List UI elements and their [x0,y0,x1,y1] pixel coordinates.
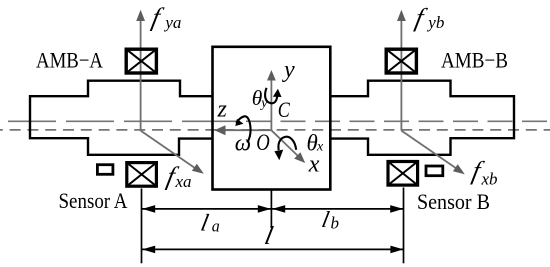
shaft right outline [330,81,514,155]
dimension extension line right [403,188,405,264]
center extension tick [270,190,272,229]
svg-text:f: f [149,3,166,32]
label f_yb [413,3,430,32]
arrowhead f_xb [453,164,465,174]
svg-text:a: a [212,217,220,236]
x arrowhead [294,152,305,163]
label f_ya [149,3,166,32]
arrowhead f_xa [192,164,204,174]
svg-text:C: C [278,97,290,122]
svg-text:y: y [282,57,295,83]
svg-text:AMB−A: AMB−A [36,48,103,73]
dimension line l [142,248,403,250]
z arrowhead [214,125,225,135]
force axis vertical B [400,20,402,131]
svg-text:Sensor A: Sensor A [59,188,128,213]
x-axis [271,130,298,156]
y arrowhead [267,70,276,81]
AMB-B crossed box [386,49,416,73]
svg-text:l: l [262,221,275,250]
y-axis [270,80,272,131]
svg-text:l: l [199,210,212,237]
Sensor B crossed box [388,162,418,186]
svg-text:O: O [256,130,270,155]
svg-text:y: y [259,96,268,111]
svg-text:ω: ω [235,130,251,155]
svg-text:AMB−B: AMB−B [441,48,508,73]
label l_a [199,210,212,237]
force diagonal f_xa [141,131,196,169]
theta-y curved arrow [265,88,278,104]
shaft left outline [30,81,213,155]
svg-text:xb: xb [481,170,498,189]
small square left [97,165,113,175]
svg-text:xa: xa [175,172,192,191]
force diagonal f_xb [401,131,457,169]
magnetic centerline (long-dash) [0,120,213,122]
svg-text:x: x [316,139,324,154]
arrow f_ya [136,10,145,21]
svg-text:z: z [217,97,228,123]
svg-text:f: f [413,3,430,32]
label l_b [320,207,332,233]
theta-x curved arrow [278,137,296,150]
svg-text:b: b [331,214,340,233]
svg-text:Sensor B: Sensor B [417,189,490,214]
AMB-A crossed box [126,49,156,73]
Sensor A crossed box [127,163,157,187]
dimension line l_a [142,208,271,210]
z-axis [224,129,271,131]
central disk box [213,47,331,190]
svg-text:yb: yb [426,13,444,32]
arrow f_yb [397,10,406,21]
force axis vertical A [140,20,142,131]
dimension line l_b [272,208,403,210]
label l [262,221,275,250]
dimension extension line left [141,189,143,264]
svg-text:ya: ya [163,13,181,32]
label f_xa [164,162,181,191]
small square right [426,166,443,176]
label f_xb [470,156,487,185]
omega curved arrow [236,116,250,142]
rotor axis (short-dash) [0,129,550,131]
